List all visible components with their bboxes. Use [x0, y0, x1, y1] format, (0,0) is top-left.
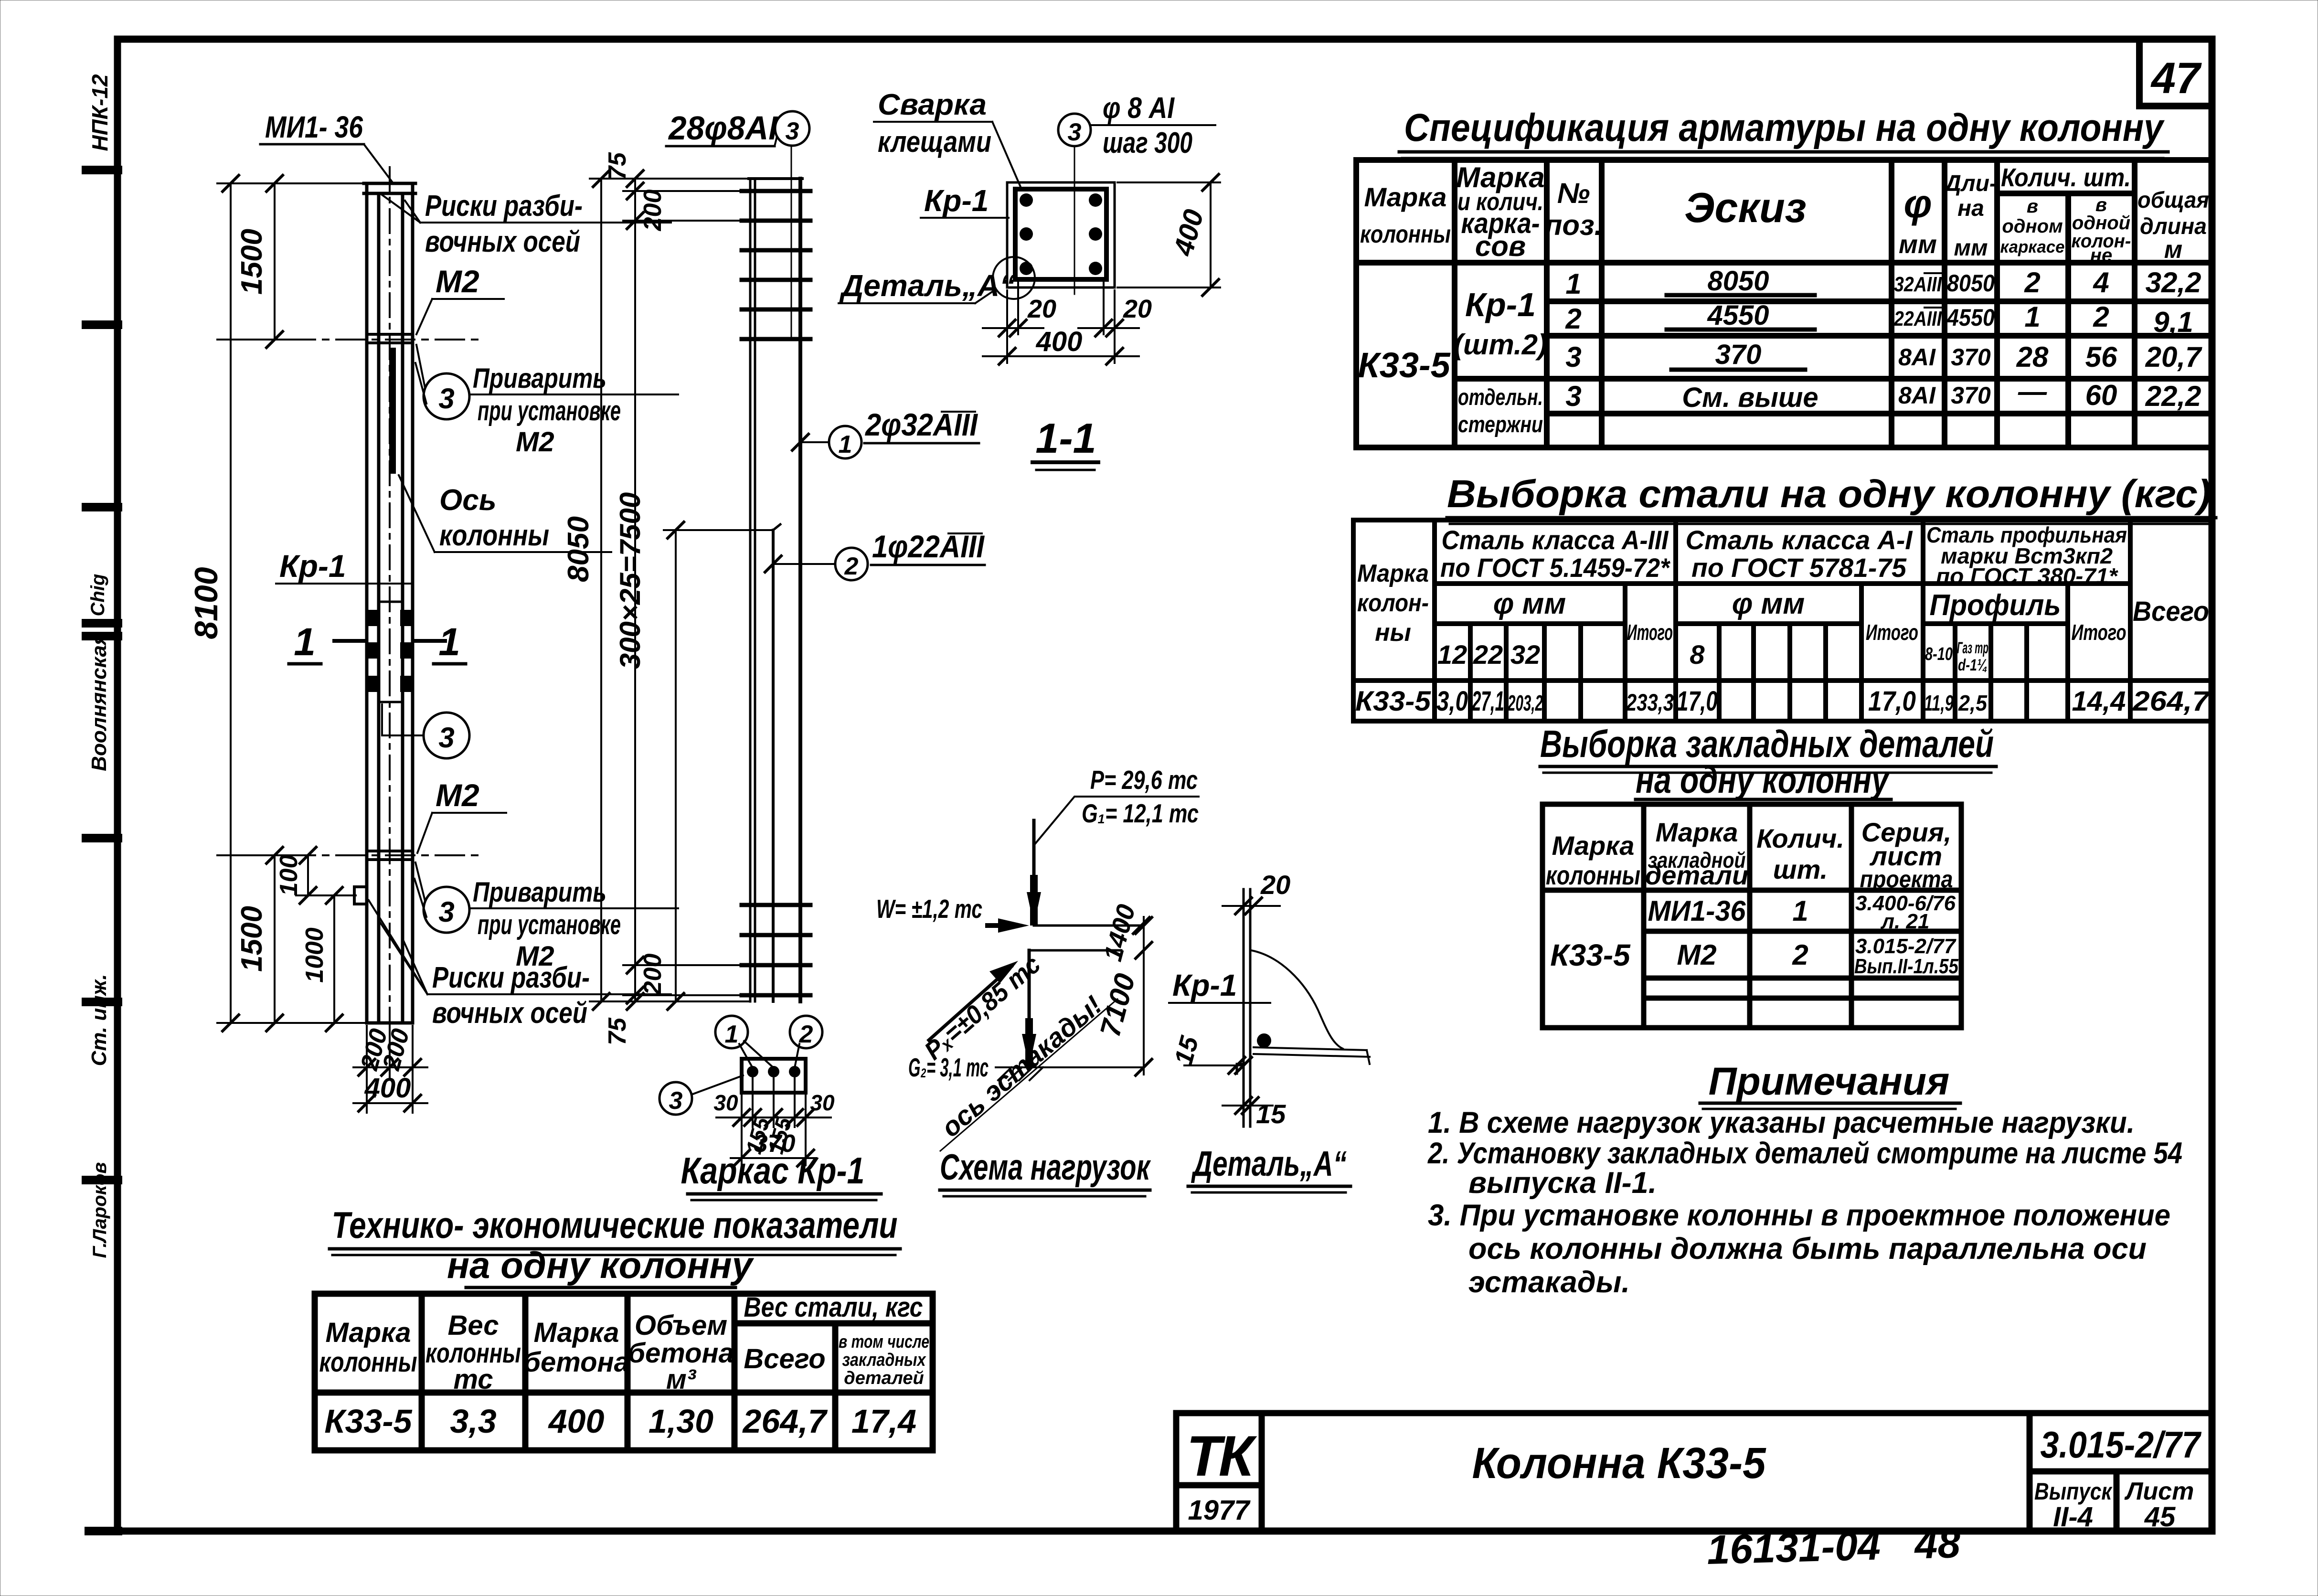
svg-text:Марка: Марка	[1364, 182, 1447, 212]
svg-text:45: 45	[2144, 1501, 2176, 1532]
svg-text:370: 370	[1715, 339, 1762, 370]
svg-text:32: 32	[1510, 639, 1540, 670]
svg-text:8АI: 8АI	[1898, 382, 1936, 409]
svg-text:17,0: 17,0	[1868, 686, 1916, 717]
svg-text:8050: 8050	[1947, 270, 1995, 297]
svg-text:2: 2	[2024, 266, 2040, 298]
svg-text:8050: 8050	[1707, 266, 1769, 297]
svg-text:стержни: стержни	[1458, 412, 1543, 437]
svg-text:общая: общая	[2137, 188, 2209, 213]
svg-text:3: 3	[438, 722, 454, 754]
svg-text:370: 370	[1951, 344, 1991, 371]
svg-text:в том числе: в том числе	[839, 1332, 929, 1352]
svg-text:1500: 1500	[235, 229, 268, 295]
svg-text:14,4: 14,4	[2072, 686, 2126, 717]
svg-text:200: 200	[639, 190, 667, 232]
svg-text:3: 3	[669, 1087, 683, 1115]
svg-text:Марка: Марка	[325, 1317, 411, 1348]
svg-text:8АI: 8АI	[1898, 344, 1936, 371]
svg-text:8100: 8100	[188, 567, 224, 639]
svg-text:клещами: клещами	[878, 126, 991, 159]
svg-text:d-1¼: d-1¼	[1958, 656, 1988, 674]
svg-text:3: 3	[438, 383, 454, 415]
svg-text:Риски разби-: Риски разби-	[432, 961, 590, 994]
svg-text:1: 1	[839, 431, 852, 458]
svg-text:60: 60	[2085, 379, 2117, 411]
svg-text:φ мм: φ мм	[1493, 587, 1566, 620]
svg-text:300×25=7500: 300×25=7500	[614, 492, 646, 669]
svg-text:4550: 4550	[1946, 304, 1995, 331]
svg-text:Марка: Марка	[1552, 830, 1635, 861]
svg-text:2: 2	[1792, 939, 1808, 971]
svg-text:См. выше: См. выше	[1682, 382, 1818, 413]
svg-text:деталей: деталей	[844, 1368, 924, 1388]
svg-text:мм: мм	[1899, 230, 1937, 259]
svg-text:на одну колонну: на одну колонну	[1636, 758, 1890, 801]
svg-text:1-1: 1-1	[1035, 415, 1096, 462]
svg-text:Марка: Марка	[1357, 560, 1429, 587]
svg-text:15: 15	[1169, 1033, 1204, 1068]
svg-text:P= 29,6 тс: P= 29,6 тс	[1090, 765, 1198, 795]
svg-text:Кр-1: Кр-1	[279, 548, 346, 584]
svg-text:Профиль: Профиль	[1930, 589, 2061, 622]
svg-text:3: 3	[438, 896, 454, 928]
svg-text:Газ тр: Газ тр	[1957, 639, 1988, 657]
svg-text:Эскиз: Эскиз	[1684, 184, 1806, 231]
svg-text:1: 1	[1792, 895, 1808, 927]
svg-text:Сварка: Сварка	[878, 88, 987, 121]
svg-text:1500: 1500	[235, 906, 268, 972]
svg-text:Кр-1: Кр-1	[1172, 968, 1237, 1002]
svg-text:Приварить: Приварить	[473, 877, 606, 908]
svg-text:ны: ны	[1375, 619, 1411, 647]
svg-text:28: 28	[2016, 341, 2049, 373]
svg-text:Риски разби-: Риски разби-	[425, 190, 583, 223]
svg-text:Марка: Марка	[1656, 817, 1738, 847]
svg-text:8050: 8050	[562, 516, 595, 582]
svg-text:27,1: 27,1	[1471, 686, 1504, 717]
svg-text:1. В схеме нагрузок указаны ра: 1. В схеме нагрузок указаны расчетные на…	[1428, 1106, 2135, 1139]
svg-text:2: 2	[2093, 301, 2109, 333]
svg-text:Технико- экономические показат: Технико- экономические показатели	[332, 1204, 898, 1246]
svg-text:—: —	[2018, 375, 2047, 407]
svg-text:колонны: колонны	[439, 519, 549, 552]
svg-text:по ГОСТ 380-71*: по ГОСТ 380-71*	[1936, 564, 2118, 588]
svg-text:М2: М2	[436, 777, 479, 813]
svg-text:Колич.: Колич.	[1756, 823, 1844, 853]
svg-text:3: 3	[786, 117, 799, 145]
svg-text:проекта: проекта	[1860, 866, 1953, 893]
svg-text:м³: м³	[666, 1364, 697, 1395]
svg-text:4: 4	[2093, 266, 2109, 298]
svg-text:2,5: 2,5	[1958, 691, 1988, 715]
svg-text:Выборка стали на одну колонну: Выборка стали на одну колонну (кгс)	[1447, 472, 2211, 516]
svg-text:мм: мм	[1954, 235, 1988, 261]
svg-text:Воолнянская: Воолнянская	[87, 633, 111, 771]
svg-text:1977: 1977	[1188, 1495, 1251, 1526]
svg-text:вочных осей: вочных осей	[425, 225, 580, 258]
svg-text:Колонна К33-5: Колонна К33-5	[1472, 1439, 1767, 1488]
svg-text:30: 30	[810, 1090, 835, 1115]
svg-text:по ГОСТ 5.1459-72*: по ГОСТ 5.1459-72*	[1440, 553, 1670, 583]
svg-text:ось колонны должна быть паралл: ось колонны должна быть параллельна оси	[1468, 1232, 2147, 1266]
svg-text:3: 3	[1068, 118, 1082, 146]
svg-text:3: 3	[1565, 380, 1581, 412]
svg-text:20,7: 20,7	[2145, 341, 2202, 373]
svg-text:3. При установке колонны в про: 3. При установке колонны в проектное пол…	[1428, 1199, 2170, 1232]
svg-text:К33-5: К33-5	[1355, 686, 1431, 717]
svg-text:(шт.2): (шт.2)	[1454, 329, 1547, 361]
svg-text:8-10: 8-10	[1925, 644, 1953, 664]
svg-text:Вып.II-1л.55: Вып.II-1л.55	[1854, 955, 1958, 978]
svg-text:1: 1	[725, 1021, 739, 1048]
svg-text:1000: 1000	[301, 927, 329, 983]
svg-text:каркасе: каркасе	[2000, 237, 2065, 256]
svg-text:Сталь класса А-I: Сталь класса А-I	[1686, 525, 1913, 555]
svg-text:Кр-1: Кр-1	[924, 183, 989, 218]
svg-text:2. Установку закладных деталей: 2. Установку закладных деталей смотрите …	[1427, 1137, 2182, 1170]
svg-text:8: 8	[1690, 639, 1705, 670]
svg-text:203,2: 203,2	[1507, 691, 1543, 715]
svg-text:К33-5: К33-5	[1358, 345, 1451, 385]
svg-text:К33-5: К33-5	[324, 1403, 412, 1440]
svg-text:φ мм: φ мм	[1732, 587, 1805, 620]
svg-text:№: №	[1557, 177, 1590, 209]
svg-text:100: 100	[275, 855, 303, 896]
svg-text:эстакады.: эстакады.	[1468, 1266, 1630, 1299]
svg-text:Ось: Ось	[439, 484, 497, 517]
svg-text:при установке: при установке	[478, 395, 621, 426]
svg-text:47: 47	[2150, 54, 2202, 103]
svg-text:20: 20	[1260, 870, 1290, 900]
svg-text:Примечания: Примечания	[1709, 1060, 1950, 1103]
svg-text:75: 75	[604, 152, 631, 180]
svg-text:22: 22	[1473, 639, 1503, 670]
svg-text:Вес стали, кгс: Вес стали, кгс	[744, 1292, 923, 1323]
svg-text:200: 200	[639, 954, 667, 996]
svg-text:колонны: колонны	[1360, 221, 1451, 248]
svg-text:Итого: Итого	[1866, 620, 1918, 645]
svg-text:370: 370	[1951, 382, 1991, 409]
svg-text:колонны: колонны	[1546, 860, 1640, 890]
svg-text:Деталь„А“: Деталь„А“	[839, 268, 1015, 303]
svg-text:17,0: 17,0	[1677, 686, 1718, 717]
svg-text:3.015-2/77: 3.015-2/77	[2041, 1424, 2202, 1466]
svg-text:Кр-1: Кр-1	[1465, 286, 1536, 323]
svg-text:30: 30	[713, 1090, 738, 1115]
svg-text:12: 12	[1437, 639, 1467, 670]
svg-text:1: 1	[294, 620, 316, 664]
svg-text:МИ1-36: МИ1-36	[1648, 895, 1746, 927]
svg-text:МИ1- 36: МИ1- 36	[265, 110, 363, 144]
svg-text:G₂= 3,1 тс: G₂= 3,1 тс	[908, 1053, 989, 1082]
svg-text:264,7: 264,7	[742, 1403, 828, 1440]
svg-text:л. 21: л. 21	[1881, 910, 1930, 933]
svg-text:шаг 300: шаг 300	[1103, 127, 1192, 160]
svg-text:тс: тс	[453, 1364, 493, 1395]
svg-text:1,30: 1,30	[649, 1403, 713, 1440]
svg-text:НПК-12: НПК-12	[87, 74, 112, 151]
svg-text:выпуска II-1.: выпуска II-1.	[1468, 1166, 1657, 1200]
svg-text:400: 400	[1036, 326, 1083, 357]
svg-text:1: 1	[2024, 301, 2040, 333]
svg-text:в: в	[2027, 196, 2038, 217]
svg-text:Выпуск: Выпуск	[2034, 1478, 2113, 1505]
svg-text:32АIII: 32АIII	[1894, 273, 1942, 296]
svg-text:75: 75	[604, 1017, 631, 1045]
svg-text:3,3: 3,3	[450, 1403, 496, 1440]
svg-text:не: не	[2090, 245, 2112, 266]
svg-text:бетона: бетона	[523, 1347, 629, 1378]
svg-text:2: 2	[1565, 303, 1581, 335]
svg-text:колонны: колонны	[319, 1347, 417, 1378]
svg-text:W= ±1,2 тс: W= ±1,2 тс	[876, 894, 982, 924]
svg-text:Ст. инж.: Ст. инж.	[87, 974, 111, 1066]
svg-text:колон-: колон-	[1357, 589, 1429, 617]
svg-text:Колич. шт.: Колич. шт.	[2001, 163, 2131, 192]
svg-text:2: 2	[799, 1021, 813, 1048]
svg-text:φ 8 АI: φ 8 АI	[1103, 92, 1175, 125]
svg-text:400: 400	[364, 1073, 411, 1104]
svg-text:м: м	[2164, 236, 2182, 264]
svg-text:одном: одном	[2002, 216, 2063, 237]
svg-text:1: 1	[1565, 268, 1581, 300]
svg-text:16131-04 48: 16131-04 48	[1706, 1521, 1961, 1573]
svg-text:11,9: 11,9	[1924, 691, 1954, 715]
svg-text:Спецификация арматуры на одну: Спецификация арматуры на одну колонну	[1404, 106, 2165, 149]
svg-text:поз.: поз.	[1545, 209, 1603, 241]
svg-text:М2: М2	[1677, 939, 1716, 971]
svg-text:2: 2	[844, 553, 859, 580]
svg-text:М2: М2	[436, 264, 479, 299]
svg-text:Всего: Всего	[2133, 596, 2209, 627]
svg-text:20: 20	[1123, 295, 1152, 323]
svg-text:Г.Лароков: Г.Лароков	[89, 1162, 110, 1258]
svg-text:Марка: Марка	[533, 1317, 619, 1348]
svg-text:М2: М2	[516, 426, 554, 458]
svg-text:закладных: закладных	[842, 1350, 927, 1370]
svg-text:φ: φ	[1903, 181, 1932, 226]
svg-text:Дли-: Дли-	[1943, 171, 1997, 196]
svg-text:по ГОСТ 5781-75: по ГОСТ 5781-75	[1691, 553, 1907, 583]
svg-text:20: 20	[1027, 295, 1056, 323]
svg-text:17,4: 17,4	[851, 1403, 916, 1440]
svg-text:Итого: Итого	[2072, 620, 2127, 645]
svg-text:ТК: ТК	[1186, 1424, 1257, 1488]
svg-text:9,1: 9,1	[2153, 306, 2193, 338]
svg-text:22,2: 22,2	[2145, 380, 2201, 412]
svg-text:II-4: II-4	[2053, 1501, 2093, 1532]
svg-text:Всего: Всего	[744, 1343, 825, 1374]
svg-text:детали: детали	[1645, 860, 1748, 890]
svg-text:400: 400	[1168, 206, 1210, 259]
svg-text:264,7: 264,7	[2132, 686, 2211, 717]
svg-text:Приварить: Приварить	[473, 363, 606, 394]
svg-text:15: 15	[1256, 1099, 1286, 1129]
svg-text:28φ8АI: 28φ8АI	[668, 109, 778, 147]
svg-text:3,0: 3,0	[1436, 686, 1468, 717]
svg-text:Вес: Вес	[447, 1310, 499, 1341]
svg-text:сов: сов	[1475, 230, 1526, 262]
svg-text:32,2: 32,2	[2146, 266, 2201, 298]
svg-text:К33-5: К33-5	[1550, 938, 1631, 972]
svg-text:вочных осей: вочных осей	[432, 997, 587, 1030]
svg-text:Схема нагрузок: Схема нагрузок	[940, 1147, 1151, 1188]
svg-text:шт.: шт.	[1773, 854, 1828, 884]
svg-text:3: 3	[1565, 341, 1581, 373]
svg-text:Объем: Объем	[635, 1310, 727, 1341]
svg-text:на одну колонну: на одну колонну	[447, 1244, 755, 1286]
svg-text:233,3: 233,3	[1626, 689, 1674, 716]
svg-text:на: на	[1957, 196, 1984, 221]
svg-text:Сталь класса А-III: Сталь класса А-III	[1442, 525, 1669, 555]
svg-text:400: 400	[548, 1403, 605, 1440]
svg-text:G₁= 12,1 тс: G₁= 12,1 тс	[1082, 798, 1199, 828]
svg-text:отдельн.: отдельн.	[1458, 385, 1543, 410]
svg-text:Каркас Кр-1: Каркас Кр-1	[681, 1149, 865, 1192]
svg-text:4550: 4550	[1707, 300, 1769, 331]
svg-text:при установке: при установке	[478, 909, 621, 940]
svg-text:22АIII: 22АIII	[1893, 307, 1942, 330]
svg-text:Chig: Chig	[87, 574, 108, 617]
svg-text:Итого: Итого	[1627, 620, 1673, 645]
svg-text:Деталь„А“: Деталь„А“	[1191, 1144, 1347, 1183]
svg-text:56: 56	[2085, 341, 2117, 373]
